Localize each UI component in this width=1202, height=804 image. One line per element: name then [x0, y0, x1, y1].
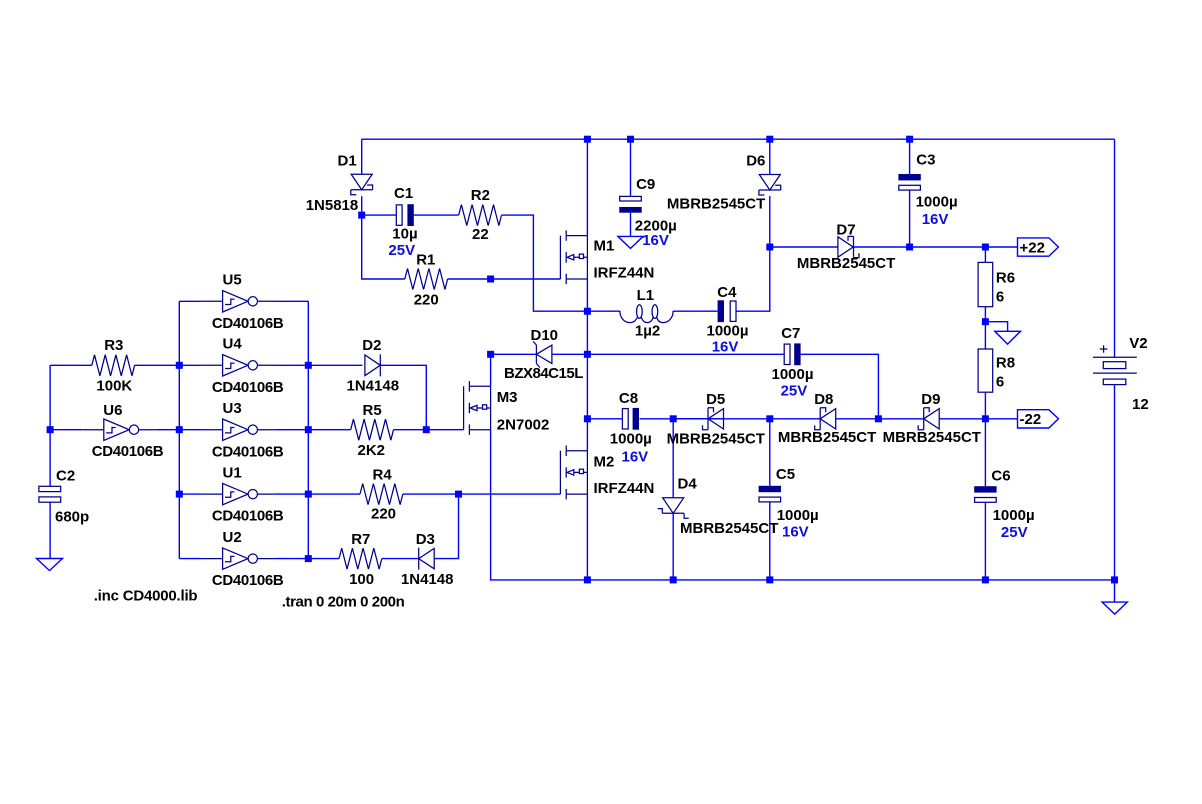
- resistor R3: [92, 355, 135, 376]
- wire D5 to node: [673, 418, 724, 420]
- svg-text:1000µ: 1000µ: [916, 194, 958, 211]
- svg-text:MBRB2545CT: MBRB2545CT: [797, 255, 895, 272]
- svg-text:MBRB2545CT: MBRB2545CT: [667, 196, 765, 213]
- wire C3 top lead: [909, 139, 911, 174]
- junction: [176, 491, 183, 498]
- svg-text:1000µ: 1000µ: [993, 507, 1035, 524]
- svg-text:220: 220: [371, 506, 396, 523]
- wire D6 top lead: [769, 139, 771, 174]
- wire U2 output: [275, 558, 309, 560]
- resistor R4: [360, 484, 403, 505]
- capacitor C4: [718, 300, 736, 322]
- wire C3 bottom lead: [909, 190, 911, 247]
- inverter U2: [201, 548, 275, 569]
- svg-text:V2: V2: [1129, 335, 1147, 352]
- capacitor C3: [898, 174, 920, 190]
- resistor R2: [459, 205, 502, 226]
- svg-text:L1: L1: [637, 287, 655, 304]
- diode D1 symbol: [351, 174, 373, 195]
- svg-text:100K: 100K: [96, 377, 132, 394]
- svg-text:R8: R8: [996, 355, 1015, 372]
- junction: [670, 576, 677, 583]
- wire D4 top lead: [672, 419, 674, 498]
- svg-text:R5: R5: [363, 402, 382, 419]
- capacitor C7: [784, 343, 800, 365]
- wire M2 source to rail: [586, 494, 588, 580]
- wire U1 output: [275, 493, 309, 495]
- wire M1 source column: [586, 279, 588, 451]
- wire R2 right to node A: [502, 215, 588, 311]
- inverter U3: [201, 419, 275, 440]
- svg-text:C2: C2: [56, 468, 75, 485]
- junction: [423, 426, 430, 433]
- inverter U6: [82, 419, 156, 440]
- junction: [487, 276, 494, 283]
- svg-text:22: 22: [472, 226, 489, 243]
- wire U3 output: [275, 429, 309, 431]
- wire C4 right lead: [735, 247, 770, 311]
- output flag -22: [1018, 410, 1059, 428]
- output flag +22: [1018, 238, 1059, 256]
- svg-text:C8: C8: [619, 390, 638, 407]
- svg-text:R4: R4: [373, 466, 393, 483]
- diode D8: [815, 408, 836, 430]
- svg-text:-22: -22: [1020, 411, 1042, 428]
- svg-text:16V: 16V: [782, 524, 809, 541]
- svg-text:25V: 25V: [388, 242, 415, 259]
- junction: [176, 362, 183, 369]
- wire D1 top lead: [361, 139, 363, 174]
- junction: [1111, 576, 1118, 583]
- capacitor C5: [759, 486, 781, 502]
- zener diode D10: [533, 341, 552, 367]
- junction: [47, 426, 54, 433]
- svg-text:MBRB2545CT: MBRB2545CT: [680, 520, 778, 537]
- wire M3 source to rail: [491, 430, 588, 580]
- svg-text:1000µ: 1000µ: [772, 366, 814, 383]
- wire U4 input: [179, 364, 201, 366]
- diode D5: [703, 408, 724, 430]
- wire C7 node to D9: [878, 418, 923, 420]
- junction: [906, 136, 913, 143]
- svg-text:IRFZ44N: IRFZ44N: [594, 480, 655, 497]
- wire R8 bottom lead: [984, 392, 986, 419]
- diode D2 symbol: [365, 354, 380, 376]
- wire D9 to -22: [939, 418, 1017, 420]
- svg-text:16V: 16V: [712, 339, 739, 356]
- svg-text:D7: D7: [836, 222, 855, 239]
- svg-text:BZX84C15L: BZX84C15L: [504, 365, 583, 382]
- capacitor C1: [396, 204, 414, 226]
- svg-text:C7: C7: [781, 325, 800, 342]
- transistor M3: [464, 381, 491, 435]
- svg-text:MBRB2545CT: MBRB2545CT: [667, 431, 765, 448]
- svg-text:CD40106B: CD40106B: [212, 379, 284, 396]
- svg-text:U1: U1: [223, 465, 242, 482]
- junction: [584, 576, 591, 583]
- svg-text:MBRB2545CT: MBRB2545CT: [778, 429, 876, 446]
- voltage source V2 battery: [1093, 345, 1137, 384]
- svg-text:16V: 16V: [622, 449, 649, 466]
- wire U6 input: [50, 429, 82, 431]
- wire U4 output: [275, 364, 309, 366]
- wire C6 top lead: [984, 419, 986, 486]
- svg-text:6: 6: [996, 374, 1004, 391]
- svg-text:D1: D1: [338, 153, 357, 170]
- svg-text:U4: U4: [223, 336, 243, 353]
- svg-text:U6: U6: [103, 402, 122, 419]
- wire R1 right to M1 gate: [448, 278, 561, 280]
- svg-text:2N7002: 2N7002: [497, 417, 550, 434]
- wire top rail: [362, 138, 1115, 140]
- wire C9 top lead: [630, 139, 632, 196]
- wire R4 right to M2 gate: [403, 493, 561, 495]
- svg-text:CD40106B: CD40106B: [212, 572, 284, 589]
- svg-text:C3: C3: [916, 151, 935, 168]
- wire M1 drain lead: [586, 139, 588, 235]
- wire R5 left lead: [308, 429, 350, 431]
- inverter U5: [201, 291, 275, 312]
- wire U2 input: [179, 558, 201, 560]
- junction: [875, 415, 882, 422]
- svg-text:U5: U5: [223, 272, 242, 289]
- wire R7 left lead: [308, 558, 339, 560]
- svg-text:M2: M2: [594, 454, 615, 471]
- capacitor C9: [619, 196, 641, 212]
- capacitor C8: [622, 408, 639, 430]
- wire right bus: [307, 301, 309, 558]
- wire R3 left lead: [50, 364, 92, 366]
- svg-text:12: 12: [1132, 396, 1149, 413]
- diode D9: [918, 408, 939, 430]
- wire ground stub R6 R8: [985, 322, 1007, 332]
- wire left bus: [178, 301, 180, 558]
- transistor M2: [560, 446, 587, 500]
- svg-text:D9: D9: [921, 391, 940, 408]
- junction: [358, 212, 365, 219]
- svg-text:CD40106B: CD40106B: [212, 315, 284, 332]
- wire R7 to D3: [382, 558, 419, 560]
- svg-text:1µ2: 1µ2: [635, 323, 660, 340]
- svg-text:1N4148: 1N4148: [401, 571, 454, 588]
- svg-text:1000µ: 1000µ: [777, 507, 819, 524]
- wire L1 left lead: [587, 310, 620, 312]
- capacitor C2: [39, 486, 61, 502]
- wire D10 left lead: [491, 353, 537, 355]
- svg-text:1N4148: 1N4148: [347, 377, 400, 394]
- svg-text:M3: M3: [497, 389, 518, 406]
- junction: [305, 362, 312, 369]
- svg-text:10µ: 10µ: [392, 226, 417, 243]
- wire M3 drain lead: [490, 354, 492, 386]
- wire D2 right to R5 node: [381, 365, 427, 429]
- wire ground stub V2: [1114, 580, 1116, 602]
- resistor R8: [978, 349, 993, 392]
- wire bottom rail: [587, 579, 1114, 581]
- wire R4 left lead: [308, 493, 360, 495]
- svg-text:R3: R3: [104, 337, 123, 354]
- svg-text:R1: R1: [416, 251, 435, 268]
- wire D3 to R4 node: [434, 494, 458, 558]
- svg-text:C6: C6: [991, 467, 1010, 484]
- wire C5 bottom lead: [769, 502, 771, 580]
- inverter U1: [201, 483, 275, 504]
- svg-text:D2: D2: [362, 337, 381, 354]
- junction: [982, 576, 989, 583]
- junction: [627, 136, 634, 143]
- wire D7 anode: [770, 246, 838, 248]
- svg-text:C4: C4: [717, 284, 737, 301]
- inverter U4: [201, 355, 275, 376]
- wire U5 output: [275, 300, 309, 302]
- svg-text:U3: U3: [223, 400, 242, 417]
- svg-text:CD40106B: CD40106B: [212, 443, 284, 460]
- svg-text:C1: C1: [394, 185, 413, 202]
- svg-text:MBRB2545CT: MBRB2545CT: [883, 429, 981, 446]
- svg-text:D6: D6: [746, 152, 765, 169]
- svg-text:16V: 16V: [922, 211, 949, 228]
- wire C8 to D5: [640, 418, 709, 420]
- svg-text:CD40106B: CD40106B: [92, 443, 164, 460]
- resistor R1: [405, 269, 448, 290]
- wire R3 right lead: [135, 364, 180, 366]
- ground bottom right: [1102, 602, 1127, 614]
- svg-text:R6: R6: [996, 269, 1015, 286]
- wire U5 input: [179, 300, 201, 302]
- ground R6 R8 midpoint: [995, 331, 1021, 344]
- wire V2 top lead: [1114, 139, 1116, 357]
- svg-text:C5: C5: [776, 466, 795, 483]
- svg-text:U2: U2: [223, 529, 242, 546]
- wire U6 output: [156, 429, 180, 431]
- junction: [176, 426, 183, 433]
- ground under C2: [37, 559, 63, 571]
- svg-text:16V: 16V: [642, 232, 669, 249]
- diode D3: [419, 548, 435, 570]
- svg-text:.tran 0 20m 0 200n: .tran 0 20m 0 200n: [282, 594, 405, 611]
- resistor R5: [351, 419, 394, 440]
- wire node to D8: [673, 418, 820, 420]
- wire D7 cathode to +22: [854, 246, 1018, 248]
- wire C6 bottom lead: [984, 503, 986, 580]
- wire C5 top lead: [769, 419, 771, 486]
- svg-text:D5: D5: [706, 391, 725, 408]
- junction: [766, 244, 773, 251]
- junction: [766, 576, 773, 583]
- svg-text:D3: D3: [416, 531, 435, 548]
- svg-text:R2: R2: [471, 187, 490, 204]
- wire R5 right to M3 gate: [394, 429, 464, 431]
- wire D1 cathode to R1: [362, 196, 405, 279]
- svg-text:R7: R7: [351, 531, 370, 548]
- svg-text:220: 220: [414, 292, 439, 309]
- wire left input column: [49, 365, 51, 486]
- wire V2 bottom lead: [1114, 385, 1116, 580]
- svg-text:CD40106B: CD40106B: [212, 508, 284, 525]
- junction: [906, 244, 913, 251]
- wire U1 input: [179, 493, 201, 495]
- svg-text:6: 6: [996, 289, 1004, 306]
- inductor L1: [620, 305, 673, 323]
- transistor M1: [560, 230, 587, 284]
- diode D7: [838, 236, 859, 257]
- ground under C9: [618, 236, 643, 248]
- junction: [487, 351, 494, 358]
- junction: [584, 308, 591, 315]
- svg-text:1000µ: 1000µ: [707, 323, 749, 340]
- svg-text:D10: D10: [531, 327, 559, 344]
- svg-text:+22: +22: [1020, 239, 1045, 256]
- junction: [766, 136, 773, 143]
- wire U3 input: [179, 429, 201, 431]
- wire C8 left lead: [587, 418, 622, 420]
- resistor R6: [978, 262, 993, 306]
- junction: [305, 491, 312, 498]
- svg-text:.inc CD4000.lib: .inc CD4000.lib: [94, 588, 198, 605]
- diode D4 symbol: [658, 498, 689, 519]
- wire L1 to C4: [673, 310, 718, 312]
- wire D2 left lead: [308, 364, 362, 366]
- svg-text:100: 100: [349, 571, 374, 588]
- junction: [982, 318, 989, 325]
- svg-text:25V: 25V: [781, 383, 808, 400]
- junction: [455, 491, 462, 498]
- svg-text:25V: 25V: [1001, 524, 1028, 541]
- wire D8 to C7 node: [836, 418, 879, 420]
- junction: [766, 415, 773, 422]
- svg-text:M1: M1: [594, 238, 615, 255]
- svg-text:2K2: 2K2: [358, 442, 386, 459]
- wire D4 bottom lead: [672, 513, 674, 580]
- junction: [584, 136, 591, 143]
- svg-text:680p: 680p: [55, 509, 89, 526]
- junction: [584, 351, 591, 358]
- junction: [670, 415, 677, 422]
- svg-text:D8: D8: [814, 391, 833, 408]
- wire C1 left lead: [362, 214, 397, 216]
- wire C2 bottom lead: [49, 503, 51, 559]
- svg-text:1N5818: 1N5818: [306, 197, 359, 214]
- wire R6 to R8: [984, 307, 986, 349]
- wire C1 to R2: [414, 214, 459, 216]
- junction: [305, 555, 312, 562]
- wire R6 top lead: [984, 247, 986, 262]
- junction: [982, 244, 989, 251]
- wire C7 right lead: [800, 354, 878, 419]
- svg-text:IRFZ44N: IRFZ44N: [594, 265, 655, 282]
- capacitor C6: [974, 486, 996, 502]
- junction: [305, 426, 312, 433]
- diode D6 symbol: [759, 175, 781, 196]
- wire D10 right to C7: [552, 353, 784, 355]
- junction: [982, 415, 989, 422]
- wire C9 bottom lead: [630, 213, 632, 237]
- svg-text:C9: C9: [636, 176, 655, 193]
- resistor R7: [339, 548, 382, 569]
- svg-text:1000µ: 1000µ: [610, 431, 652, 448]
- svg-text:D4: D4: [678, 476, 698, 493]
- wire D6 bottom lead: [769, 196, 771, 247]
- junction: [584, 415, 591, 422]
